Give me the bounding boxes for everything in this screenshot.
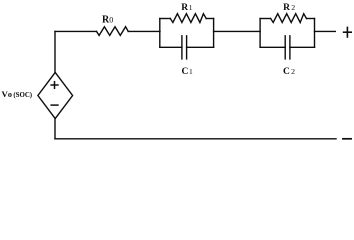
terminal - (negative output)	[343, 138, 351, 140]
wire block1 top branch left	[160, 18, 171, 20]
node block1 right bar	[213, 19, 215, 48]
wire between blocks	[214, 30, 261, 32]
svg-text:R0: R0	[102, 15, 113, 26]
wire block2 top branch left	[260, 18, 271, 20]
svg-text:C2: C2	[283, 67, 295, 77]
svg-text:C1: C1	[182, 67, 193, 77]
wire block2 to plus terminal	[315, 30, 336, 32]
source + polarity mark	[51, 82, 58, 89]
capacitor C2	[284, 36, 286, 59]
node block2 right bar	[314, 19, 316, 48]
wire block1 bottom branch left	[160, 46, 182, 48]
source - polarity mark	[51, 104, 58, 106]
wire block1 top branch right	[206, 18, 213, 20]
wire source bottom to bottom rail	[54, 119, 56, 139]
wire bottom rail	[55, 138, 336, 140]
capacitor C1	[181, 36, 183, 59]
resistor R0	[97, 27, 129, 36]
wire R0 to block1	[128, 30, 160, 32]
resistor R1	[170, 14, 206, 23]
dependent source Vo(SOC) diamond	[38, 72, 73, 118]
wire block2 bottom branch right	[290, 46, 315, 48]
wire top-left horizontal	[55, 30, 97, 32]
node block1 left bar	[159, 19, 161, 48]
terminal + (positive output)	[344, 27, 352, 37]
node block2 left bar	[259, 19, 261, 48]
wire block1 bottom branch right	[187, 46, 214, 48]
resistor R2	[271, 14, 307, 23]
svg-text:R1: R1	[181, 3, 192, 13]
wire left vertical from top rail to source	[54, 31, 56, 72]
svg-text:Vo(SOC): Vo(SOC)	[2, 89, 33, 99]
wire block2 bottom branch left	[260, 46, 285, 48]
svg-text:R2: R2	[283, 3, 295, 13]
wire block2 top branch right	[307, 18, 315, 20]
